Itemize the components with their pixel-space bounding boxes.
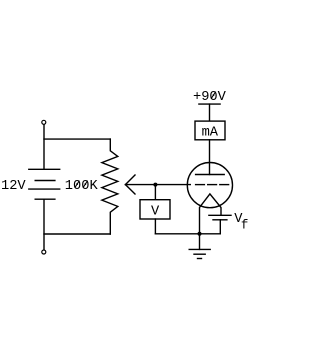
wire wiper junction to voltmeter [154,185,156,200]
node wiper junction [153,183,157,187]
svg-text:+90V: +90V [193,90,227,105]
wire battery bottom plate to terminal T2 [43,199,45,249]
svg-text:12V: 12V [1,179,26,194]
wire milliammeter to triode plate [209,140,211,175]
milliammeter mA box [195,121,225,140]
potentiometer wiper arrow [125,175,190,194]
battery B1 plates [29,169,60,199]
terminal T1 (top-left open circle) [42,120,46,124]
wire T1 to battery top plate [43,125,45,169]
wire bottom rail to potentiometer [44,233,110,235]
wire bottom rail (voltmeter to filament battery) [155,233,220,235]
node cathode junction [198,232,202,236]
filament battery Vf plates [209,215,231,220]
slashed-zero marks in 100K [75,181,87,187]
triode grid (dashed) [196,184,229,186]
wire voltmeter to bottom rail [154,219,156,234]
svg-text:mA: mA [202,126,219,141]
supply terminal +90V bar [199,103,220,105]
triode filament [200,194,222,234]
svg-text:f: f [241,218,249,232]
slashed-zero mark in +90V [211,92,215,98]
voltmeter V box [140,200,170,219]
ground [189,234,210,259]
triode plate bar [196,174,225,176]
wire +90V terminal to milliammeter [209,104,211,121]
label Vf [234,212,248,232]
wire top rail to potentiometer [44,138,110,140]
triode V1 envelope [187,163,232,208]
wire filament battery to bottom rail [219,220,221,234]
svg-text:V: V [151,204,160,219]
potentiometer R1 100K zigzag [102,139,118,234]
svg-text:100K: 100K [65,179,99,194]
terminal T2 (bottom-left open circle) [42,250,46,254]
